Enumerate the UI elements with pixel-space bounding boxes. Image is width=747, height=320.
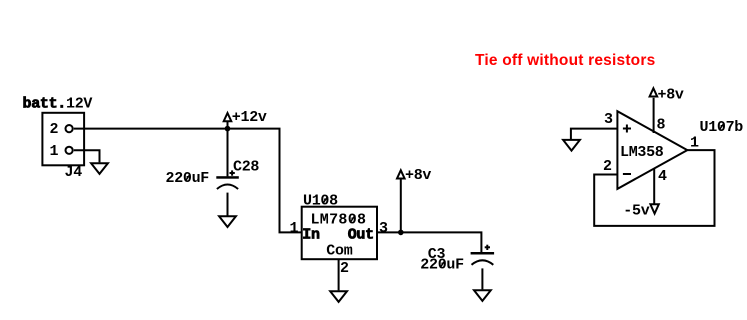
svg-text:J4: J4	[65, 164, 83, 181]
svg-text:+12v: +12v	[232, 109, 267, 126]
node +12v junction dot	[225, 126, 231, 132]
wire op-amp output feedback to pin 2	[594, 150, 714, 226]
svg-text:+8v: +8v	[405, 167, 431, 184]
svg-text:Tie off without resistors: Tie off without resistors	[475, 52, 655, 69]
power symbol +8v (op-amp pin 8)	[650, 88, 658, 96]
power symbol +8v (regulator output)	[397, 170, 405, 178]
svg-text:1: 1	[50, 143, 59, 160]
connector J4 pin 2 circle	[66, 125, 73, 132]
svg-text:batt.12V: batt.12V	[23, 96, 93, 113]
svg-text:2: 2	[50, 121, 59, 138]
wire regulator Com to ground	[338, 259, 340, 290]
capacitor C3	[471, 252, 495, 265]
svg-text:8: 8	[657, 116, 666, 133]
svg-text:3: 3	[379, 220, 388, 237]
svg-text:Com: Com	[326, 243, 352, 260]
ground (C28)	[219, 216, 236, 227]
wire +12v rail to C28	[227, 129, 229, 177]
svg-text:1: 1	[690, 135, 699, 152]
wire C3 to ground	[481, 268, 483, 289]
wire op-amp pin 8 to +8v	[653, 98, 655, 133]
inverting input marker -	[623, 173, 631, 175]
op-amp U107b triangle	[617, 111, 687, 189]
svg-text:2: 2	[603, 158, 612, 175]
wire J4 pin1 to ground	[74, 150, 100, 162]
regulator U108 box	[302, 207, 377, 260]
power symbol +12v	[224, 113, 232, 121]
ground (C3)	[474, 290, 491, 301]
svg-text:2: 2	[340, 260, 349, 277]
svg-text:LM358: LM358	[620, 144, 664, 161]
connector J4 box	[42, 113, 84, 166]
wire regulator output to C3	[377, 232, 481, 252]
svg-text:+8v: +8v	[658, 86, 684, 103]
wire C28 to ground	[227, 193, 229, 216]
svg-text:C28: C28	[233, 159, 259, 176]
ground (U108 Com)	[330, 291, 347, 302]
wire +12v stub	[227, 122, 229, 129]
ground (op-amp pin 3)	[563, 140, 580, 151]
connector J4 pin 1 circle	[66, 147, 73, 154]
polarity + (C28)	[230, 170, 235, 175]
svg-text:-5v: -5v	[623, 203, 649, 220]
svg-text:1: 1	[290, 220, 299, 237]
svg-text:3: 3	[604, 111, 613, 128]
capacitor C28	[216, 176, 239, 189]
node +8v junction dot	[398, 230, 404, 236]
wire op-amp pin3 to ground	[571, 129, 618, 140]
wire op-amp pin 4 to -5v	[653, 168, 655, 203]
wire J4 pin2 to regulator input (+12v rail)	[74, 129, 302, 233]
polarity + (C3)	[485, 245, 490, 250]
ground (J4 pin 1)	[91, 163, 108, 174]
slashed zero marks	[185, 123, 724, 268]
power symbol -5v	[650, 204, 658, 213]
noninverting input marker +	[623, 125, 631, 133]
svg-text:4: 4	[658, 168, 667, 185]
svg-text:In: In	[302, 227, 320, 244]
svg-text:Out: Out	[348, 227, 374, 244]
wire +8v stub to output	[400, 179, 402, 232]
